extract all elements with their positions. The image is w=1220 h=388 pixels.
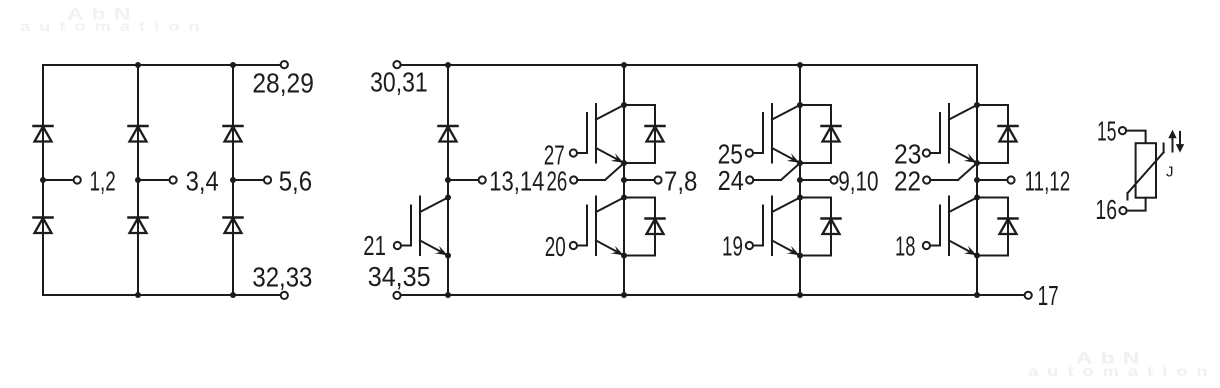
svg-text:19: 19 [722,230,743,261]
svg-text:20: 20 [545,231,566,262]
svg-text:13,14: 13,14 [489,166,544,197]
svg-text:32,33: 32,33 [252,261,312,292]
svg-text:15: 15 [1097,115,1116,146]
svg-text:27: 27 [544,139,565,170]
svg-text:16: 16 [1095,194,1117,225]
svg-text:28,29: 28,29 [252,68,314,99]
svg-text:24: 24 [718,165,744,196]
svg-text:9,10: 9,10 [838,165,878,196]
svg-text:J: J [1166,164,1174,181]
svg-text:30,31: 30,31 [370,67,428,98]
svg-text:7,8: 7,8 [664,166,697,197]
svg-text:21: 21 [363,230,386,261]
svg-text:5,6: 5,6 [279,166,312,197]
svg-text:22: 22 [894,165,921,196]
svg-text:automation: automation [20,19,209,34]
svg-text:1,2: 1,2 [90,166,116,197]
svg-text:18: 18 [895,231,915,262]
svg-text:automation: automation [1028,364,1217,379]
svg-text:17: 17 [1038,280,1059,311]
svg-text:11,12: 11,12 [1025,165,1071,196]
svg-text:3,4: 3,4 [186,166,219,197]
svg-text:34,35: 34,35 [368,261,431,292]
